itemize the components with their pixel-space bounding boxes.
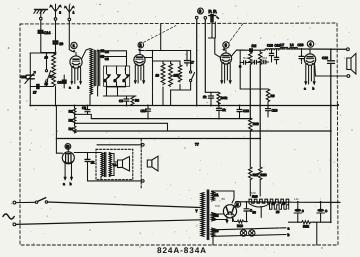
capacitor C23: [244, 202, 253, 222]
tube V1: [70, 50, 82, 68]
capacitor C4: [101, 50, 109, 54]
svg-text:R2: R2: [69, 110, 73, 114]
svg-text:C: C: [239, 65, 242, 69]
coil L4: [156, 61, 165, 106]
svg-text:10: 10: [156, 74, 160, 78]
wire AVC tap 1: [75, 114, 92, 118]
antenna A2 symbol: [50, 4, 61, 18]
wire HV to rectifier: [212, 191, 235, 203]
svg-text:C9: C9: [82, 106, 86, 110]
wire V4 cathode line: [315, 63, 348, 76]
AC source tilde: [3, 214, 14, 219]
svg-text:a: a: [304, 87, 306, 91]
wire R10 tail: [249, 131, 251, 139]
svg-text:b: b: [313, 87, 315, 91]
phone jack symbol: [209, 15, 219, 23]
capacitor C8: [104, 96, 137, 106]
RF choke L7: [280, 43, 288, 49]
capacitor C21: [85, 153, 95, 181]
svg-text:C14: C14: [44, 31, 51, 35]
tube V3: [220, 48, 231, 64]
antenna A2 terminal: [54, 18, 57, 21]
wire audio line: [279, 48, 347, 50]
wire AC to switch: [16, 201, 36, 203]
phone jack label circle: [198, 8, 204, 14]
svg-text:4: 4: [309, 42, 312, 47]
wire R11 column: [259, 64, 261, 139]
RF choke L8: [290, 43, 298, 49]
resistor R11: [259, 50, 262, 64]
svg-text:T: T: [196, 209, 198, 213]
svg-text:17: 17: [33, 91, 37, 95]
capacitor C17: [185, 50, 195, 66]
rectifier tube V6: [223, 205, 236, 218]
capacitor C11: [203, 92, 219, 105]
divider resistor comb R21: [270, 201, 289, 214]
capacitor C9: [82, 106, 90, 115]
capacitor C24: [294, 202, 304, 222]
resistor R18: [259, 139, 267, 197]
svg-text:R19: R19: [237, 224, 243, 228]
capacitor C coupling: [249, 48, 253, 52]
svg-text:C18: C18: [267, 44, 273, 48]
rectifier pins: [226, 218, 233, 223]
wire shield to frame: [160, 24, 162, 51]
svg-text:50: 50: [253, 211, 257, 215]
capacitor C5: [101, 55, 109, 61]
ground (earth) symbol: [34, 10, 48, 18]
resistor R22: [298, 221, 315, 229]
wire to tank: [55, 44, 57, 53]
trimmer box: [104, 66, 130, 86]
svg-text:25: 25: [276, 210, 280, 214]
divider resistor comb R20: [249, 194, 289, 203]
capacitor Cb: [250, 60, 260, 64]
wire trimmer baseline: [107, 87, 126, 96]
svg-text:10: 10: [45, 56, 49, 60]
wire R7 column: [249, 65, 251, 118]
resistor R9: [240, 89, 275, 102]
wire IF top line: [140, 50, 191, 52]
svg-text:R22: R22: [303, 225, 309, 229]
wire AC top line: [48, 202, 201, 208]
svg-text:8: 8: [302, 209, 304, 213]
svg-text:R10: R10: [253, 122, 259, 126]
wire lamp line b: [212, 235, 286, 237]
svg-text:S1: S1: [215, 193, 219, 197]
svg-text:C8: C8: [119, 99, 123, 103]
svg-text:L7: L7: [281, 43, 285, 47]
antenna A1 terminal: [68, 18, 71, 21]
svg-text:2: 2: [59, 11, 61, 15]
resistor R2: [69, 106, 76, 116]
jack terminal 1: [195, 16, 198, 19]
svg-text:77: 77: [195, 142, 199, 146]
tube V4 pins: [305, 65, 315, 85]
tube V3 label: [223, 42, 229, 48]
speaker SP2 external: [147, 156, 158, 171]
wire jack t1 down: [196, 19, 198, 106]
trimmer C7: [123, 66, 130, 87]
svg-text:C3: C3: [57, 81, 61, 85]
capacitor C18: [267, 44, 274, 63]
svg-text:C13: C13: [243, 109, 249, 113]
tube V1 label: [71, 42, 77, 48]
wiper arc: [250, 204, 269, 218]
trimmer C6: [114, 66, 121, 87]
junction dots on bus: [29, 48, 339, 223]
capacitor C16: [266, 102, 278, 117]
svg-text:C20: C20: [21, 75, 27, 79]
tube V4 label: [307, 41, 313, 47]
svg-text:1k: 1k: [222, 108, 226, 112]
coil L5: [169, 61, 179, 106]
choke L6: [265, 49, 279, 51]
resistor R5: [178, 61, 181, 90]
wire ground stem: [40, 20, 42, 30]
tube V4: [304, 49, 315, 65]
resistor R7: [249, 52, 252, 65]
svg-text:C16: C16: [272, 109, 278, 113]
capacitor C10: [141, 106, 151, 119]
bus wire 2: [74, 130, 331, 132]
pointer line V2: [144, 26, 176, 43]
resistor R4: [69, 124, 76, 133]
svg-text:100k: 100k: [221, 96, 228, 100]
speaker SP1: [347, 54, 356, 75]
wire speaker terminal bottom: [88, 180, 142, 182]
svg-text:R18: R18: [261, 173, 267, 177]
antenna A1 symbol: [64, 5, 74, 18]
svg-text:R13: R13: [262, 56, 268, 60]
tube V5 label G: [65, 144, 71, 152]
svg-text:L11: L11: [294, 197, 299, 201]
capacitor C14: [38, 30, 50, 35]
wire detector line: [237, 49, 266, 51]
capacitor C22: [322, 56, 335, 63]
speaker internal: [118, 157, 130, 172]
chassis dashed border: [20, 23, 338, 245]
svg-text:b: b: [78, 86, 80, 90]
capacitor C2: [33, 84, 39, 94]
tube V2: [134, 49, 145, 66]
switch S1: [45, 53, 53, 87]
wire IFT1 top lines: [98, 50, 127, 66]
resistor R3: [69, 115, 76, 124]
ground terminal: [40, 17, 43, 20]
wire rect output: [236, 201, 250, 203]
wire jack sleeve down: [209, 22, 221, 58]
resistor R8: [131, 96, 139, 106]
svg-text:2k: 2k: [91, 161, 95, 165]
output terminal 1: [347, 48, 350, 51]
wire antenna A2 stem: [55, 20, 57, 40]
resistor R16: [217, 92, 228, 105]
main bus wire: [30, 105, 337, 107]
wire filter line: [249, 201, 340, 204]
tube V3 pins: [221, 64, 231, 84]
coil L1: [45, 53, 56, 87]
svg-text:C: C: [325, 209, 328, 213]
resistor R19: [234, 220, 247, 228]
output transformer box dashed: [96, 149, 133, 179]
wire left column: [55, 106, 57, 139]
rectifier V6 label: [235, 201, 241, 207]
svg-text:2: 2: [139, 43, 142, 48]
svg-text:1M: 1M: [252, 44, 257, 48]
jack terminal 2: [204, 17, 207, 20]
wire tank left: [29, 53, 31, 106]
power switch S3: [35, 198, 47, 204]
resistor R10: [249, 118, 259, 131]
wire grid cap T1: [69, 50, 72, 52]
capacitor C15: [53, 41, 63, 46]
svg-text:a: a: [69, 86, 71, 90]
wire V5 grid: [56, 139, 62, 154]
svg-text:R12: R12: [243, 56, 249, 60]
wire V2 plate: [145, 50, 153, 105]
tube V5 output: [62, 152, 74, 164]
switch S2: [190, 50, 195, 90]
svg-text:R8: R8: [135, 99, 139, 103]
trimmer C5a: [104, 66, 111, 87]
wire ground drop: [316, 222, 318, 245]
wire antenna A1 stem: [68, 21, 70, 50]
resistor R17: [249, 139, 259, 197]
wire primary bottom: [100, 177, 102, 180]
output transformer T2: [101, 153, 116, 177]
wire IFT1 bottoms: [90, 86, 98, 106]
wire filter bottom: [289, 131, 331, 222]
wire V5 plate: [74, 152, 101, 154]
wire sec to speaker: [109, 154, 117, 176]
wire heater lines: [212, 214, 227, 220]
svg-text:P. P.: P. P.: [209, 9, 217, 14]
svg-text:3: 3: [225, 43, 228, 48]
svg-text:824A-834A: 824A-834A: [157, 246, 207, 255]
wire junction column: [239, 50, 241, 89]
wire V1 plate to IFT1: [82, 49, 91, 60]
svg-text:80: 80: [222, 197, 226, 201]
svg-text:a: a: [288, 226, 290, 230]
svg-text:R3: R3: [69, 119, 73, 123]
speaker terminal 2: [142, 180, 145, 183]
svg-text:6: 6: [199, 9, 202, 14]
wire transformer ground drop: [212, 237, 214, 246]
IF transformer IFT1: [90, 49, 100, 95]
wire tank bottom: [30, 86, 53, 88]
svg-text:1: 1: [73, 43, 76, 48]
bus wire 3: [56, 138, 260, 140]
svg-text:C5: C5: [105, 57, 109, 61]
capacitor Cc: [260, 60, 268, 64]
tube V2 pins: [134, 65, 144, 83]
capacitor C25: [317, 202, 328, 222]
wire below C14: [41, 33, 56, 52]
wire jack t2 down: [204, 19, 206, 92]
wire V3 plate: [232, 50, 245, 56]
svg-text:10: 10: [45, 82, 49, 86]
wire speaker terminal top: [97, 144, 142, 146]
svg-text:C4: C4: [105, 50, 109, 54]
AC terminal 1: [13, 201, 16, 204]
capacitor C3 cathode: [57, 75, 66, 88]
wire AVC tap 2: [75, 123, 168, 131]
svg-text:b: b: [70, 182, 72, 186]
capacitor C19: [274, 44, 280, 65]
AC terminal 2: [13, 223, 16, 226]
svg-text:C22: C22: [322, 56, 328, 60]
pilot lamp PL1: [240, 230, 246, 236]
svg-text:1k: 1k: [203, 95, 207, 99]
power transformer T3: [196, 190, 219, 240]
svg-text:19: 19: [59, 42, 63, 46]
svg-text:5: 5: [236, 202, 239, 207]
dashed divider: [140, 139, 142, 188]
capacitor C13b: [217, 106, 226, 119]
wire coil header: [153, 60, 181, 62]
speaker terminal 1: [142, 144, 145, 147]
svg-text:a: a: [63, 182, 65, 186]
svg-text:1: 1: [73, 11, 75, 15]
wire AVC line long: [91, 118, 250, 120]
wire coil footer: [171, 89, 191, 91]
svg-text:R4: R4: [69, 127, 73, 131]
svg-text:R20: R20: [250, 191, 256, 195]
output terminal 2: [347, 75, 350, 78]
svg-text:b: b: [288, 233, 290, 237]
capacitor C20: [298, 43, 305, 64]
svg-text:L8: L8: [290, 43, 294, 47]
variable capacitor C1: [21, 72, 36, 84]
wire rect cathode: [232, 216, 234, 222]
svg-text:C20: C20: [298, 43, 304, 47]
svg-text:C10: C10: [141, 109, 147, 113]
wire AC bottom line: [16, 220, 201, 225]
tube V2 label: [138, 42, 144, 48]
tube V5 pins: [63, 163, 73, 186]
svg-text:750: 750: [215, 204, 220, 208]
svg-text:R9: R9: [271, 94, 275, 98]
capacitor Ca: [239, 61, 250, 69]
tube V1 pins: [71, 67, 81, 83]
pilot lamp PL2: [249, 230, 255, 236]
tank circuit top wire: [30, 52, 53, 54]
wire B+ rail: [330, 49, 332, 131]
capacitor C13: [237, 106, 249, 119]
wire coil bottom: [55, 87, 57, 106]
pointer line V3: [229, 24, 243, 43]
wire lamp line a: [212, 228, 286, 230]
